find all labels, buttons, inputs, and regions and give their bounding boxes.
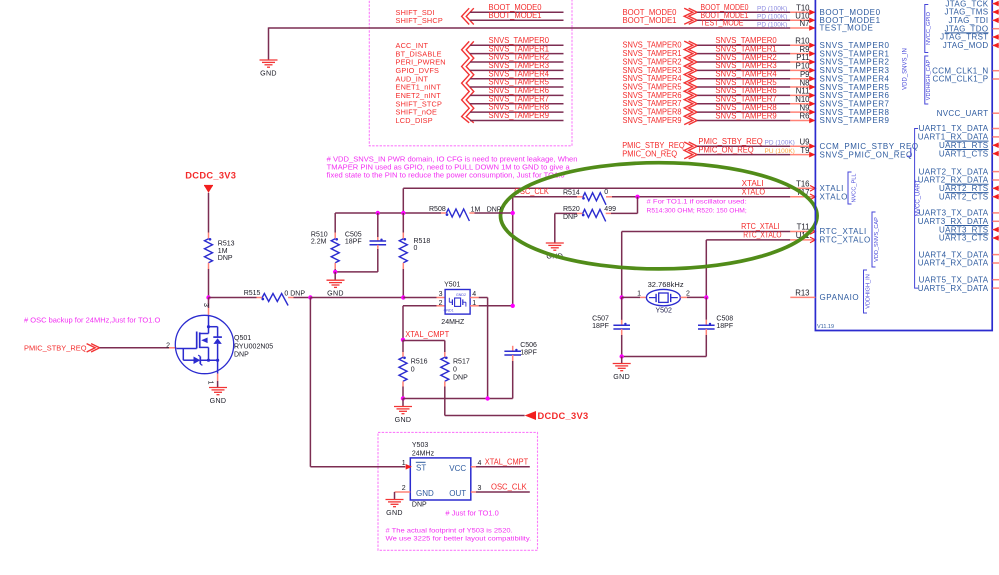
svg-text:OUT: OUT bbox=[449, 489, 466, 498]
svg-text:UART3_CTS: UART3_CTS bbox=[939, 234, 989, 243]
wire R516 bottom bbox=[402, 387, 404, 399]
svg-text:RYU002N05: RYU002N05 bbox=[234, 343, 273, 350]
wire R518 bottom bbox=[402, 269, 404, 298]
wire RTC_XTALO corner drop bbox=[705, 240, 707, 298]
svg-text:VDDHIGH_IN: VDDHIGH_IN bbox=[866, 274, 872, 309]
svg-text:UART4_RX_DATA: UART4_RX_DATA bbox=[918, 259, 989, 268]
pin stub Y502 pin1 bbox=[640, 296, 646, 298]
resistor R510 bbox=[331, 239, 339, 263]
resistor R516 bbox=[399, 357, 407, 381]
pin stub UART4_RX_DATA bbox=[993, 262, 999, 264]
pin stub Q501 drain bbox=[208, 308, 210, 316]
wire RTC_XTALI bbox=[622, 231, 791, 233]
junction RTC gnd bbox=[620, 354, 624, 358]
resistor R517 bottom stub bbox=[444, 381, 446, 386]
resistor R510 top stub bbox=[334, 233, 336, 239]
wire R520 to junction bbox=[611, 212, 638, 214]
svg-text:NVCC_PLL: NVCC_PLL bbox=[852, 174, 858, 203]
capacitor C506 bottom stub bbox=[512, 355, 514, 361]
pin stub Y503 pin3 bbox=[471, 491, 476, 493]
pin stub Y503 pin2 bbox=[395, 491, 411, 493]
svg-text:3: 3 bbox=[202, 303, 209, 307]
wire Y501 pin2 to XTAL_CMPT column bbox=[403, 305, 437, 307]
pin arrow N8 bbox=[809, 84, 815, 90]
junction R508/XTALI bbox=[401, 211, 405, 215]
wire net SNVS_TAMPER7 (left group) bbox=[470, 103, 564, 105]
wire net SNVS_TAMPER8 (to U1) bbox=[697, 111, 790, 113]
off-page connector chevron PMIC pair bbox=[684, 142, 693, 159]
svg-text:# The actual footprint of Y503: # The actual footprint of Y503 is 2520. bbox=[386, 527, 513, 534]
pin arrow U10 bbox=[809, 18, 815, 24]
pin stub Y501 pin2 bbox=[437, 305, 446, 307]
terminal dot R510 bbox=[335, 238, 338, 241]
resistor R518 bottom stub bbox=[402, 263, 404, 269]
pin arrow T10 bbox=[809, 10, 815, 16]
pin stub T17 bbox=[790, 196, 815, 198]
pin arrow JTAG_TCK bbox=[993, 1, 999, 7]
pin stub U10 bbox=[790, 19, 815, 21]
terminal dot R517 bbox=[445, 356, 448, 359]
junction R516/GND rail bbox=[401, 396, 405, 400]
pin stub UART2_RTS bbox=[993, 187, 999, 189]
svg-text:2.2M: 2.2M bbox=[311, 239, 327, 246]
svg-text:18PF: 18PF bbox=[716, 323, 733, 330]
svg-text:3: 3 bbox=[478, 485, 482, 492]
pin arrow R9 bbox=[809, 51, 815, 57]
svg-text:1M: 1M bbox=[218, 248, 228, 255]
U1 net bracket VDD_SNVS_CAP bbox=[872, 212, 876, 267]
pin stub JTAG_TCK bbox=[993, 3, 999, 5]
svg-text:2: 2 bbox=[686, 290, 690, 297]
pin arrow P11 bbox=[809, 59, 815, 65]
pin stub Q501 gate bbox=[169, 347, 177, 349]
wire XTAL_CMPT link bbox=[402, 340, 404, 352]
wire RTC_XTALO bbox=[706, 239, 790, 241]
wire Y503 pin1 feed bbox=[310, 466, 405, 468]
svg-text:GND: GND bbox=[260, 70, 277, 78]
wire Q501 drain riser bbox=[208, 298, 210, 309]
capacitor C508 top wire bbox=[705, 297, 707, 319]
svg-text:DCDC_3V3: DCDC_3V3 bbox=[185, 170, 236, 180]
dashed highlight box (top nets) bbox=[369, 0, 572, 146]
wire net BOOT_MODE0 (to U1) bbox=[697, 11, 790, 13]
resistor R517 bbox=[441, 357, 449, 381]
svg-text:# OSC backup for 24MHz,Just fo: # OSC backup for 24MHz,Just for TO1.O bbox=[24, 317, 161, 324]
resistor R518 bbox=[399, 239, 407, 263]
svg-text:TEST_MODE: TEST_MODE bbox=[820, 24, 874, 33]
resistor R515 left stub bbox=[257, 297, 263, 299]
svg-text:C508: C508 bbox=[716, 316, 733, 323]
pin stub JTAG_TMS bbox=[993, 11, 999, 13]
svg-text:BOOT_MODE1: BOOT_MODE1 bbox=[489, 11, 543, 20]
wire XTALI corner drop bbox=[402, 188, 404, 213]
svg-text:VDD_SNVS_CAP: VDD_SNVS_CAP bbox=[874, 217, 880, 262]
wire Q501 source to GND bbox=[217, 381, 219, 388]
pin stub UART2_CTS bbox=[993, 196, 999, 198]
svg-text:GND: GND bbox=[416, 489, 434, 498]
resistor R508 left stub bbox=[441, 212, 446, 214]
svg-text:24MHZ: 24MHZ bbox=[441, 319, 465, 326]
svg-text:R510: R510 bbox=[311, 232, 328, 239]
svg-text:0: 0 bbox=[453, 367, 457, 374]
wire DCDC_3V3 to R513 bbox=[208, 193, 210, 233]
pin arrow T9 bbox=[809, 152, 815, 158]
svg-text:VDDHIGH_CAP: VDDHIGH_CAP bbox=[926, 60, 932, 101]
pin arrow Y503 pin1 bbox=[406, 464, 412, 470]
power symbol DCDC_3V3 (top) bbox=[204, 186, 213, 193]
svg-text:T9: T9 bbox=[800, 146, 809, 155]
pin stub JTAG_TDO bbox=[993, 28, 999, 30]
resistor R518 top stub bbox=[402, 233, 404, 239]
svg-text:SNVS_TAMPER9: SNVS_TAMPER9 bbox=[623, 116, 682, 125]
dashed box (Y503 section) bbox=[378, 432, 538, 550]
wire C505 bottom link bbox=[335, 271, 378, 273]
highlight ellipse (oscillator section) bbox=[501, 163, 818, 269]
wire Y501 pin1 to OSC_CLK column bbox=[479, 305, 513, 307]
wire net SNVS_TAMPER2 (left group) bbox=[470, 61, 564, 63]
svg-text:PD (100K): PD (100K) bbox=[765, 139, 795, 146]
wire net SNVS_TAMPER3 (left group) bbox=[470, 69, 564, 71]
ground (Y503) bbox=[386, 499, 404, 501]
wire C508 bottom bbox=[705, 335, 707, 357]
pin arrow UART1_RTS bbox=[993, 142, 999, 148]
pin stub T9 bbox=[790, 154, 815, 156]
svg-text:0 DNP: 0 DNP bbox=[284, 290, 305, 297]
svg-text:TMAPER PIN used as GPIO, need: TMAPER PIN used as GPIO, need to PULL DO… bbox=[327, 165, 570, 172]
pin stub UART5_TX_DATA bbox=[993, 279, 999, 281]
svg-text:DNP: DNP bbox=[453, 375, 468, 382]
capacitor C508 top stub bbox=[705, 320, 707, 325]
junction R510/C505 gnd node bbox=[333, 270, 337, 274]
svg-text:GPANAIO: GPANAIO bbox=[820, 293, 860, 302]
svg-text:2: 2 bbox=[402, 485, 406, 492]
wire GND drop (TEST_MODE) bbox=[268, 27, 270, 60]
svg-text:18PF: 18PF bbox=[592, 323, 609, 330]
pin arrow R10 bbox=[809, 43, 815, 49]
resistor R513 top stub bbox=[208, 233, 210, 239]
pin stub JTAG_TDI bbox=[993, 19, 999, 21]
wire net SNVS_TAMPER5 (to U1) bbox=[697, 86, 790, 88]
wire R513 to main node bbox=[208, 269, 210, 298]
svg-text:VCC: VCC bbox=[449, 464, 466, 473]
resistor R520 right stub bbox=[606, 212, 611, 214]
svg-text:0: 0 bbox=[604, 189, 608, 196]
wire R508 to OSC_CLK column bbox=[475, 212, 513, 214]
wire R510 top bbox=[334, 213, 336, 233]
svg-text:UART2_CTS: UART2_CTS bbox=[939, 192, 989, 201]
pin stub UART1_RTS bbox=[993, 144, 999, 146]
IC U1 box bbox=[815, 0, 992, 331]
pin stub R10 bbox=[790, 44, 815, 46]
wire net SNVS_TAMPER4 (left group) bbox=[470, 78, 564, 80]
wire TEST_MODE net (GND to U1 pin N7) bbox=[269, 27, 791, 29]
pin stub N11 bbox=[790, 94, 815, 96]
wire Y503 feed vertical (node B) bbox=[309, 298, 311, 467]
resistor R514 left stub bbox=[577, 196, 583, 198]
wire net SNVS_TAMPER1 (left group) bbox=[470, 53, 564, 55]
wire net BOOT_MODE1 (to U1) bbox=[697, 19, 790, 21]
transistor Q501 circle bbox=[175, 315, 233, 373]
pin arrow P10 bbox=[809, 68, 815, 74]
wire Y503 pin4 XTAL_CMPT bbox=[476, 466, 530, 468]
ground (R520) bbox=[546, 242, 564, 244]
svg-text:GND: GND bbox=[386, 509, 403, 517]
wire net SNVS_TAMPER2 (to U1) bbox=[697, 61, 790, 63]
wire Y503 pin3 OSC_CLK bbox=[476, 491, 530, 493]
wire net SNVS_TAMPER6 (to U1) bbox=[697, 94, 790, 96]
svg-text:32.768kHz: 32.768kHz bbox=[648, 282, 685, 289]
ground (TEST_MODE) bbox=[260, 59, 278, 61]
wire R508 row (XTALI branch) bbox=[335, 212, 441, 214]
wire GND rail bbox=[403, 398, 513, 400]
wire Q501 gate bbox=[100, 347, 169, 349]
wire Y503 pin2 gnd drop bbox=[394, 492, 396, 500]
wire R520 row left bbox=[555, 212, 577, 214]
svg-text:N7: N7 bbox=[800, 19, 810, 28]
resistor R508 right stub bbox=[469, 212, 474, 214]
pin stub UART2_RX_DATA bbox=[993, 179, 999, 181]
wire C505 bottom bbox=[377, 249, 379, 272]
pin stub UART1_RX_DATA bbox=[993, 136, 999, 138]
svg-text:Y501: Y501 bbox=[444, 281, 460, 288]
resistor R520 left stub bbox=[577, 212, 583, 214]
pin stub Y503 pin4 bbox=[471, 466, 476, 468]
pin stub T11 bbox=[790, 231, 815, 233]
pin stub UART3_CTS bbox=[993, 237, 999, 239]
capacitor C508 bbox=[698, 324, 715, 326]
pin stub Y501 pin1 bbox=[470, 305, 479, 307]
svg-text:0: 0 bbox=[414, 245, 418, 252]
svg-text:CCM_CLK1_P: CCM_CLK1_P bbox=[933, 75, 989, 84]
capacitor C505 top stub bbox=[377, 237, 379, 241]
pin stub UART4_TX_DATA bbox=[993, 254, 999, 256]
svg-text:R514: R514 bbox=[563, 190, 580, 197]
terminal dot R514 bbox=[582, 197, 585, 200]
wire Y502 pin1 link bbox=[622, 296, 640, 298]
pin stub UART5_RX_DATA bbox=[993, 287, 999, 289]
svg-text:SNVS_TAMPER9: SNVS_TAMPER9 bbox=[820, 116, 890, 125]
power symbol DCDC_3V3 (left arrow) bbox=[525, 411, 536, 420]
svg-text:R520: R520 bbox=[563, 206, 580, 213]
svg-text:UART1_CTS: UART1_CTS bbox=[939, 149, 989, 158]
svg-text:SHIFT_SHCP: SHIFT_SHCP bbox=[396, 16, 443, 25]
U1 net bracket VDDHIGH_IN bbox=[864, 270, 868, 313]
svg-text:XTAL_CMPT: XTAL_CMPT bbox=[405, 330, 449, 339]
wire RTC gnd rail bbox=[622, 356, 707, 358]
svg-text:# For TO1.1 if oscillator used: # For TO1.1 if oscillator used: bbox=[647, 199, 747, 206]
svg-text:4: 4 bbox=[478, 460, 482, 467]
wire Y502 pin2 link bbox=[687, 296, 706, 298]
pin arrow P9 bbox=[809, 76, 815, 82]
wire Y501 pin4 to gnd rail bbox=[479, 297, 488, 299]
svg-text:ST: ST bbox=[416, 464, 426, 473]
svg-text:DNP: DNP bbox=[234, 352, 249, 359]
wire ground drop (C507) bbox=[621, 357, 623, 364]
terminal dot R515 bbox=[261, 298, 264, 301]
svg-text:Q501: Q501 bbox=[234, 335, 251, 342]
off-page connector chevron BOOT (left group) bbox=[462, 8, 470, 24]
svg-text:LCD_DISP: LCD_DISP bbox=[396, 116, 433, 125]
pin stub UART1_TX_DATA bbox=[993, 128, 999, 130]
ground (R516) bbox=[394, 406, 412, 408]
pin open-arrow T16 bbox=[810, 186, 815, 192]
junction C505 top bbox=[376, 211, 380, 215]
pin open-arrow T17 bbox=[810, 194, 815, 200]
svg-text:18PF: 18PF bbox=[520, 349, 537, 356]
svg-text:DNP: DNP bbox=[412, 501, 427, 508]
pin arrow N11 bbox=[809, 93, 815, 99]
svg-text:1: 1 bbox=[206, 381, 213, 385]
svg-text:Y502: Y502 bbox=[656, 308, 672, 315]
svg-text:JTAG_MOD: JTAG_MOD bbox=[943, 41, 989, 50]
svg-text:We use 3225 for better layout: We use 3225 for better layout compatibil… bbox=[386, 535, 532, 542]
terminal dot R508 bbox=[446, 213, 449, 216]
wire net SNVS_TAMPER1 (to U1) bbox=[697, 53, 790, 55]
wire net SNVS_TAMPER7 (to U1) bbox=[697, 103, 790, 105]
wire main row left bbox=[209, 297, 257, 299]
pin arrow N10 bbox=[809, 101, 815, 107]
wire R510 GND drop bbox=[334, 272, 336, 280]
wire C505 top bbox=[377, 213, 379, 237]
terminal dot R520 bbox=[582, 214, 585, 217]
pin stub JTAG_TRST bbox=[993, 36, 999, 38]
resistor R514 right stub bbox=[606, 196, 612, 198]
wire C506 bottom bbox=[512, 361, 514, 399]
U1 net bracket VDDHIGH_CAP bbox=[925, 56, 929, 104]
svg-text:SNVS_PMIC_ON_REQ: SNVS_PMIC_ON_REQ bbox=[820, 150, 913, 159]
resistor R510 bottom stub bbox=[334, 263, 336, 269]
wire net SNVS_TAMPER0 (to U1) bbox=[697, 44, 790, 46]
pin arrow N7 bbox=[809, 25, 815, 31]
svg-text:PMIC_STBY_REQ: PMIC_STBY_REQ bbox=[24, 343, 87, 352]
svg-text:GND: GND bbox=[210, 397, 227, 405]
svg-text:Y503: Y503 bbox=[412, 442, 428, 449]
pin stub CCM_CLK1_N bbox=[993, 70, 999, 72]
pin stub R6 bbox=[790, 119, 815, 121]
pin arrow UART3_RTS bbox=[993, 227, 999, 233]
resistor R508 bbox=[446, 209, 469, 221]
resistor R520 bbox=[583, 209, 606, 221]
U1 net bracket NVCC_UART bbox=[915, 129, 919, 289]
junction Y502 pin2 node bbox=[704, 295, 708, 299]
pin stub Y501 pin4 bbox=[470, 297, 479, 299]
pin stub N8 bbox=[790, 86, 815, 88]
svg-text:1: 1 bbox=[637, 290, 641, 297]
wire net SNVS_TAMPER9 (to U1) bbox=[697, 119, 790, 121]
wire main row to Y501 bbox=[403, 297, 436, 299]
svg-text:DNP: DNP bbox=[218, 255, 233, 262]
capacitor C506 bbox=[504, 350, 521, 352]
svg-text:R513: R513 bbox=[218, 241, 235, 248]
svg-text:18PF: 18PF bbox=[345, 239, 362, 246]
junction XTALO/R520 bbox=[635, 195, 639, 199]
junction pin4 rail bbox=[485, 396, 489, 400]
svg-text:PD (100K): PD (100K) bbox=[757, 14, 787, 21]
svg-text:0: 0 bbox=[411, 367, 415, 374]
svg-text:# Just for TO1.0: # Just for TO1.0 bbox=[445, 510, 499, 517]
capacitor C507 bbox=[613, 324, 630, 326]
svg-text:DCDC_3V3: DCDC_3V3 bbox=[538, 411, 589, 421]
ground (Q501) bbox=[209, 387, 227, 389]
capacitor C505 bbox=[370, 240, 387, 242]
wire XTALO vertical (OSC_CLK column) bbox=[512, 197, 514, 306]
pin open-arrow U11 bbox=[810, 237, 815, 243]
svg-text:GND: GND bbox=[395, 416, 412, 424]
wire XTALO right segment bbox=[612, 196, 790, 198]
svg-text:XTALO: XTALO bbox=[820, 193, 848, 202]
pin stub R13 bbox=[790, 296, 815, 298]
resistor R516 top stub bbox=[402, 352, 404, 357]
wire net BOOT_MODE0 (left group) bbox=[470, 11, 564, 13]
wire net PMIC_ON_REQ (to U1) bbox=[697, 154, 790, 156]
pin open-arrow T11 bbox=[810, 229, 815, 235]
svg-text:C506: C506 bbox=[520, 342, 537, 349]
svg-text:C507: C507 bbox=[592, 316, 609, 323]
junction XTAL_CMPT bbox=[401, 338, 405, 342]
svg-text:PMIC_ON_REQ: PMIC_ON_REQ bbox=[622, 149, 677, 158]
svg-text:R517: R517 bbox=[453, 359, 470, 366]
ground (C507/C508) bbox=[613, 363, 631, 365]
pin stub N9 bbox=[790, 111, 815, 113]
pin stub T16 bbox=[790, 187, 815, 189]
svg-text:BOOT_MODE1: BOOT_MODE1 bbox=[623, 16, 677, 25]
pin stub JTAG_MOD bbox=[993, 44, 999, 46]
pin stub UART3_RTS bbox=[993, 229, 999, 231]
terminal dot R516 bbox=[403, 356, 406, 359]
resistor R514 bbox=[583, 193, 606, 205]
pin stub UART2_TX_DATA bbox=[993, 171, 999, 173]
svg-text:UART5_RX_DATA: UART5_RX_DATA bbox=[918, 284, 989, 293]
svg-text:24MHz: 24MHz bbox=[412, 450, 435, 457]
junction R508/OSC_CLK bbox=[511, 211, 515, 215]
pin stub T10 bbox=[790, 11, 815, 13]
svg-text:# VDD_SNVS_IN PWR domain, IO C: # VDD_SNVS_IN PWR domain, IO CFG is need… bbox=[327, 157, 578, 164]
capacitor C507 bottom stub bbox=[621, 329, 623, 335]
junction main node A bbox=[206, 295, 210, 299]
pin arrow UART1_CTS bbox=[993, 151, 999, 157]
svg-text:NVCC_GPIO: NVCC_GPIO bbox=[926, 11, 932, 45]
pin stub Y501 pin3 bbox=[437, 297, 446, 299]
wire net SNVS_TAMPER0 (left group) bbox=[470, 44, 564, 46]
svg-text:fixed state to the PIN to redu: fixed state to the PIN to reduce the pow… bbox=[327, 173, 565, 180]
svg-text:PD (100K): PD (100K) bbox=[757, 21, 787, 28]
pin stub N10 bbox=[790, 103, 815, 105]
capacitor C506 top stub bbox=[512, 346, 514, 351]
svg-text:TEST_MODE: TEST_MODE bbox=[701, 19, 744, 28]
junction Y501 pin1/OSC_CLK bbox=[511, 304, 515, 308]
pin arrow JTAG_TMS bbox=[993, 9, 999, 15]
pin stub CCM_CLK1_P bbox=[993, 78, 999, 80]
oscillator Y503 box bbox=[410, 458, 471, 500]
svg-text:GND: GND bbox=[613, 373, 630, 381]
pin arrow JTAG_TDI bbox=[993, 18, 999, 24]
U1 net bracket NVCC_PLL bbox=[848, 172, 852, 204]
svg-text:NVCC_UART: NVCC_UART bbox=[937, 109, 989, 118]
pin stub NVCC_UART bbox=[993, 112, 999, 114]
off-page connector chevron SNVS (right group) bbox=[684, 41, 693, 125]
svg-text:PD (100K): PD (100K) bbox=[757, 6, 787, 13]
pin stub R9 bbox=[790, 53, 815, 55]
resistor R517 top stub bbox=[444, 352, 446, 357]
wire main row mid2 bbox=[310, 297, 403, 299]
svg-text:R516: R516 bbox=[411, 359, 428, 366]
U1 pin bracket PMIC group bbox=[907, 148, 911, 157]
svg-text:1M: 1M bbox=[471, 206, 481, 213]
wire main row mid bbox=[294, 297, 311, 299]
pin stub P11 bbox=[790, 61, 815, 63]
svg-text:R514:300 OHM; R520: 150 OHM;: R514:300 OHM; R520: 150 OHM; bbox=[647, 208, 747, 215]
wire R518 top bbox=[402, 213, 404, 233]
